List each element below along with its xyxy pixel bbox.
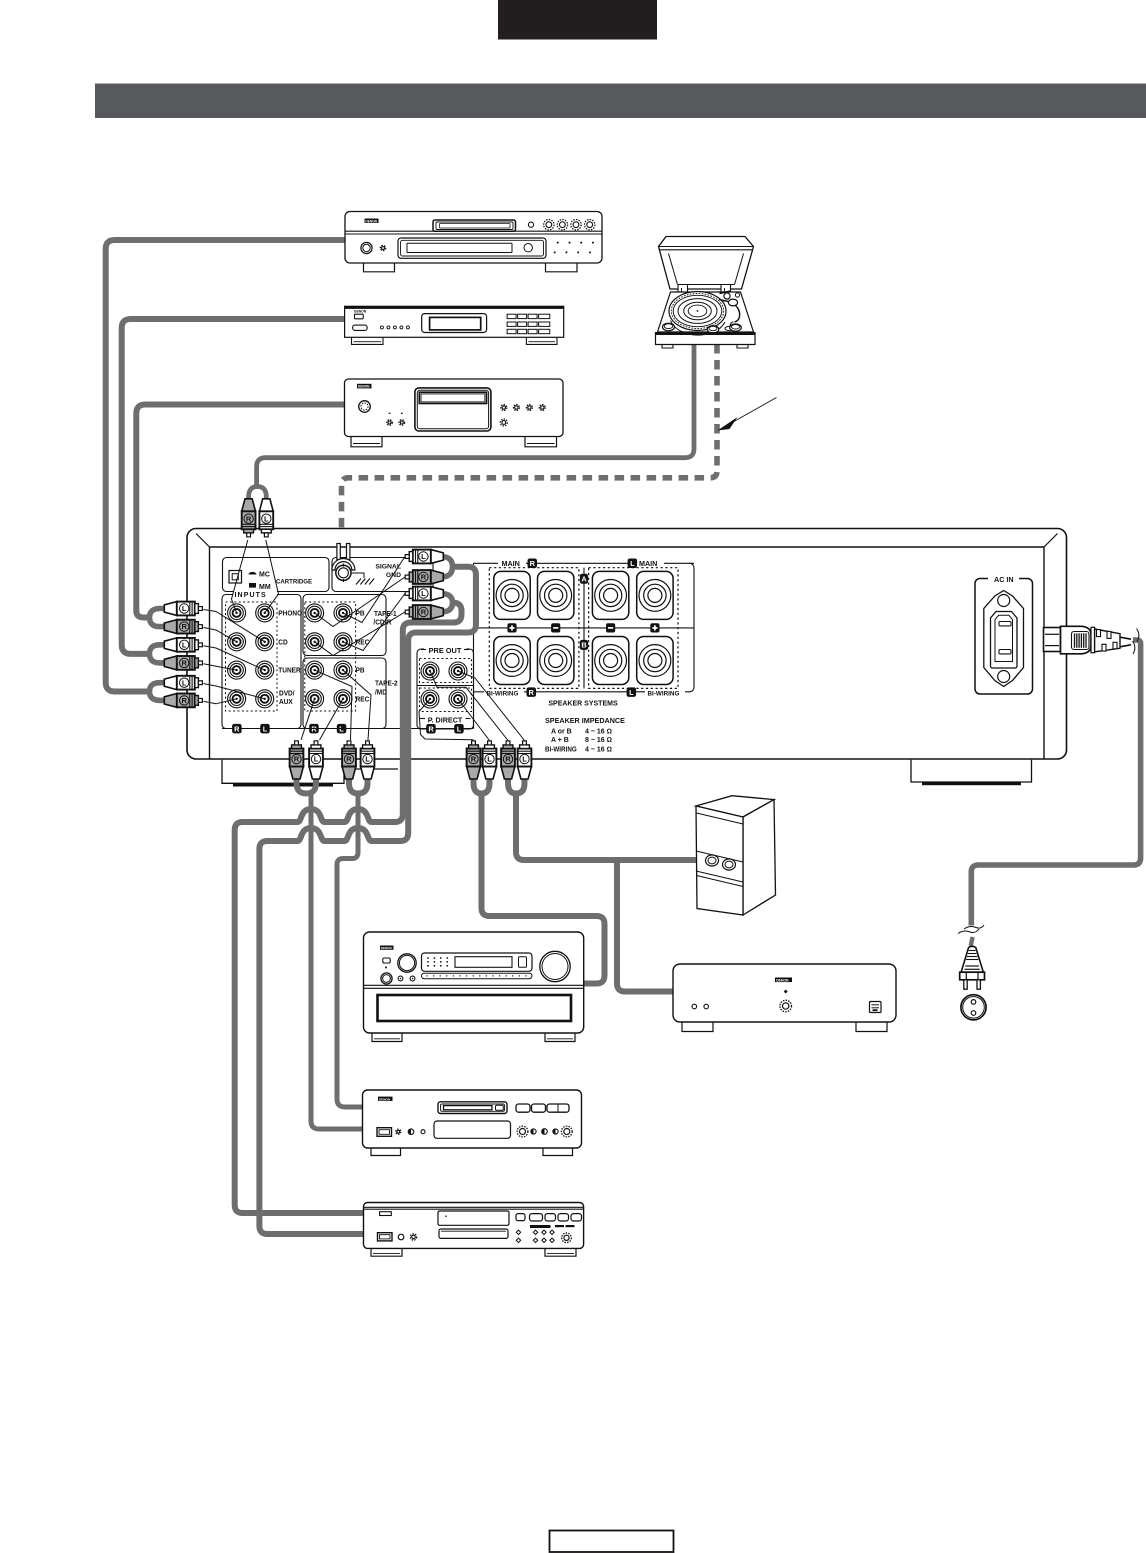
amplifier right foot: [911, 760, 1032, 785]
svg-text:A: A: [581, 575, 587, 584]
TAPE-2 plug pair 2 (PB) with loop: [342, 741, 374, 794]
AV surround amplifier: [364, 932, 584, 1042]
cable: PRE OUT pair to AV surround amplifier: [482, 795, 605, 984]
svg-text:/MD: /MD: [375, 689, 387, 696]
svg-text:L: L: [421, 552, 426, 561]
lead lines: TAPE-2 jacks to plugs: [301, 670, 371, 740]
phono plug pair (from turntable): [242, 487, 273, 537]
wire: tuner to TUNER inputs: [122, 319, 346, 654]
svg-text:L: L: [182, 678, 187, 687]
INPUTS section box: [222, 589, 301, 729]
svg-text:GND: GND: [386, 572, 401, 579]
wire: DVD player to DVD/AUX inputs: [106, 240, 346, 692]
svg-text:L: L: [365, 755, 370, 764]
svg-text:DENON: DENON: [776, 979, 789, 983]
svg-text:SPEAKER SYSTEMS: SPEAKER SYSTEMS: [548, 700, 618, 707]
svg-text:L: L: [182, 604, 187, 613]
svg-text:SPEAKER IMPEDANCE: SPEAKER IMPEDANCE: [545, 716, 625, 725]
svg-text:BI-WIRING: BI-WIRING: [648, 690, 680, 697]
svg-text:DENON: DENON: [358, 385, 370, 389]
svg-text:MAIN: MAIN: [502, 559, 520, 568]
svg-text:R: R: [421, 608, 427, 617]
TAPE-1/CD-R box: [303, 595, 397, 712]
svg-text:BI-WIRING: BI-WIRING: [487, 690, 519, 697]
tuner: [345, 306, 564, 344]
svg-text:PB: PB: [356, 668, 365, 675]
SIGNAL GND box: [332, 558, 433, 592]
svg-text:L: L: [457, 725, 462, 734]
P.DIRECT plug pair with loop: [501, 741, 531, 794]
svg-text:R: R: [505, 755, 511, 764]
IEC mains plug at AC IN: [1044, 626, 1139, 654]
input jacks PHONO/CD/TUNER/DVD-AUX: [228, 604, 303, 708]
svg-text:L: L: [263, 724, 268, 733]
cable: TAPE-1 pair2 loop to tape deck (upper horizontal with hops): [235, 603, 462, 1213]
svg-text:4 ~ 16 Ω: 4 ~ 16 Ω: [585, 747, 612, 754]
cable: AC power cord from plug to wall plug: [971, 640, 1141, 946]
svg-text:MAIN: MAIN: [639, 559, 657, 568]
amplifier left foot: [222, 760, 398, 787]
CD recorder: [363, 1090, 582, 1156]
PRE OUT plug pair with loop: [467, 741, 497, 794]
lead lines: left plugs to TUNER jacks: [204, 646, 265, 670]
svg-text:R: R: [530, 559, 536, 568]
svg-text:PHONO: PHONO: [278, 610, 302, 617]
svg-text:P. DIRECT: P. DIRECT: [428, 715, 463, 724]
mains cord break marks: [958, 925, 984, 934]
outlet (face view): [961, 995, 986, 1020]
svg-text:DENON: DENON: [381, 946, 392, 950]
TAPE-2 plug pair 1 (REC) with loop: [290, 741, 323, 794]
bottom label box: [550, 1531, 674, 1553]
svg-text:R: R: [529, 688, 535, 697]
svg-text:DENON: DENON: [365, 219, 377, 223]
svg-text:INPUTS: INPUTS: [235, 592, 267, 599]
svg-text:CARTRIDGE: CARTRIDGE: [276, 578, 312, 585]
svg-text:L: L: [182, 640, 187, 649]
TAPE-1 plug pair 1 (PB): [405, 550, 452, 584]
PRE OUT / P.DIRECT box: [417, 645, 474, 734]
cable loop + plugs into CD inputs: [150, 602, 203, 634]
svg-text:R: R: [471, 755, 477, 764]
signal gnd screw terminal with spade lug: [332, 544, 355, 583]
speaker impedance table: [545, 716, 625, 754]
TAPE-1 plug pair 2 (REC): [405, 587, 452, 619]
section banner (gray): [95, 84, 1146, 119]
svg-text:TAPE-1: TAPE-1: [374, 611, 397, 618]
cassette tape deck: [364, 1203, 584, 1257]
svg-text:TAPE-2: TAPE-2: [375, 680, 398, 687]
AC IN socket: [975, 573, 1033, 694]
svg-text:B: B: [581, 641, 586, 650]
svg-text:L: L: [522, 755, 527, 764]
svg-text:4 ~ 16 Ω: 4 ~ 16 Ω: [585, 728, 612, 735]
svg-text:R: R: [246, 514, 252, 523]
wire: turntable audio cable to PHONO plugs: [257, 344, 694, 486]
svg-text:PRE OUT: PRE OUT: [429, 646, 462, 655]
svg-text:L: L: [630, 559, 635, 568]
wire: turntable ground (dashed) to SIGNAL GND: [342, 344, 718, 545]
svg-text:R: R: [234, 724, 240, 733]
svg-text:L: L: [264, 514, 269, 523]
svg-text:R: R: [421, 573, 427, 582]
svg-text:BI-WIRING: BI-WIRING: [545, 746, 577, 753]
speaker terminals section: [474, 557, 695, 729]
wire: CD player to CD inputs: [136, 405, 346, 618]
MC/MM cartridge switch box: [223, 558, 330, 592]
svg-text:DENON: DENON: [379, 1097, 391, 1101]
DVD player: [345, 212, 602, 272]
lead lines: PRE OUT / P.DIRECT jacks to plugs: [419, 671, 525, 741]
svg-text:R: R: [346, 755, 352, 764]
svg-text:MC: MC: [259, 572, 270, 579]
svg-text:R: R: [428, 725, 434, 734]
svg-text:CD: CD: [278, 639, 288, 646]
title block (black): [498, 0, 657, 40]
amplifier rear panel body: [187, 529, 1067, 760]
svg-text:DVD/: DVD/: [279, 690, 295, 697]
turntable: [656, 237, 756, 349]
svg-text:8 ~ 16 Ω: 8 ~ 16 Ω: [585, 737, 612, 744]
svg-text:A or B: A or B: [551, 728, 572, 735]
lead lines: left plugs to CD jacks: [204, 610, 265, 642]
svg-text:L: L: [629, 688, 634, 697]
svg-text:PB: PB: [356, 610, 365, 617]
svg-text:REC: REC: [356, 696, 370, 703]
TAPE-2/MD box: [303, 658, 398, 729]
svg-text:L: L: [421, 589, 426, 598]
arrow pointing to ground wire: [718, 398, 777, 431]
cable: TAPE-2 pair1 to CD recorder (with crossover hops): [311, 793, 364, 1129]
cable loop + plugs into TUNER inputs: [150, 638, 203, 670]
R L tags under inputs: [222, 724, 474, 734]
svg-text:TUNER: TUNER: [278, 668, 301, 675]
svg-text:L: L: [487, 755, 492, 764]
svg-text:R: R: [181, 622, 187, 631]
svg-text:AC IN: AC IN: [994, 575, 1014, 584]
svg-text:R: R: [181, 659, 187, 668]
speaker system (rear 3/4 view): [696, 796, 776, 915]
svg-text:R: R: [294, 755, 300, 764]
svg-text:AUX: AUX: [279, 699, 293, 706]
lead lines: TAPE-1 jacks to plugs: [315, 557, 405, 656]
2-pin wall plug: [960, 946, 985, 989]
cable: TAPE-1 pair1 loop to tape deck (lower horizontal with hops): [259, 567, 476, 1234]
cable: TAPE-2 pair2 to CD recorder (with jog): [337, 793, 364, 1107]
svg-text:A + B: A + B: [551, 737, 569, 744]
svg-text:DENON: DENON: [354, 309, 367, 313]
svg-text:R: R: [181, 696, 187, 705]
power amplifier: [673, 964, 896, 1032]
cable loop + plugs into DVD/AUX inputs: [150, 676, 203, 708]
cable: P.DIRECT pair to speaker and power amplifier (T junction): [516, 795, 697, 992]
svg-text:L: L: [314, 755, 319, 764]
lead lines: phono plugs to PHONO jacks: [232, 540, 279, 613]
lead lines: left plugs to DVD/AUX jacks: [204, 684, 265, 704]
CD player: [345, 379, 564, 447]
